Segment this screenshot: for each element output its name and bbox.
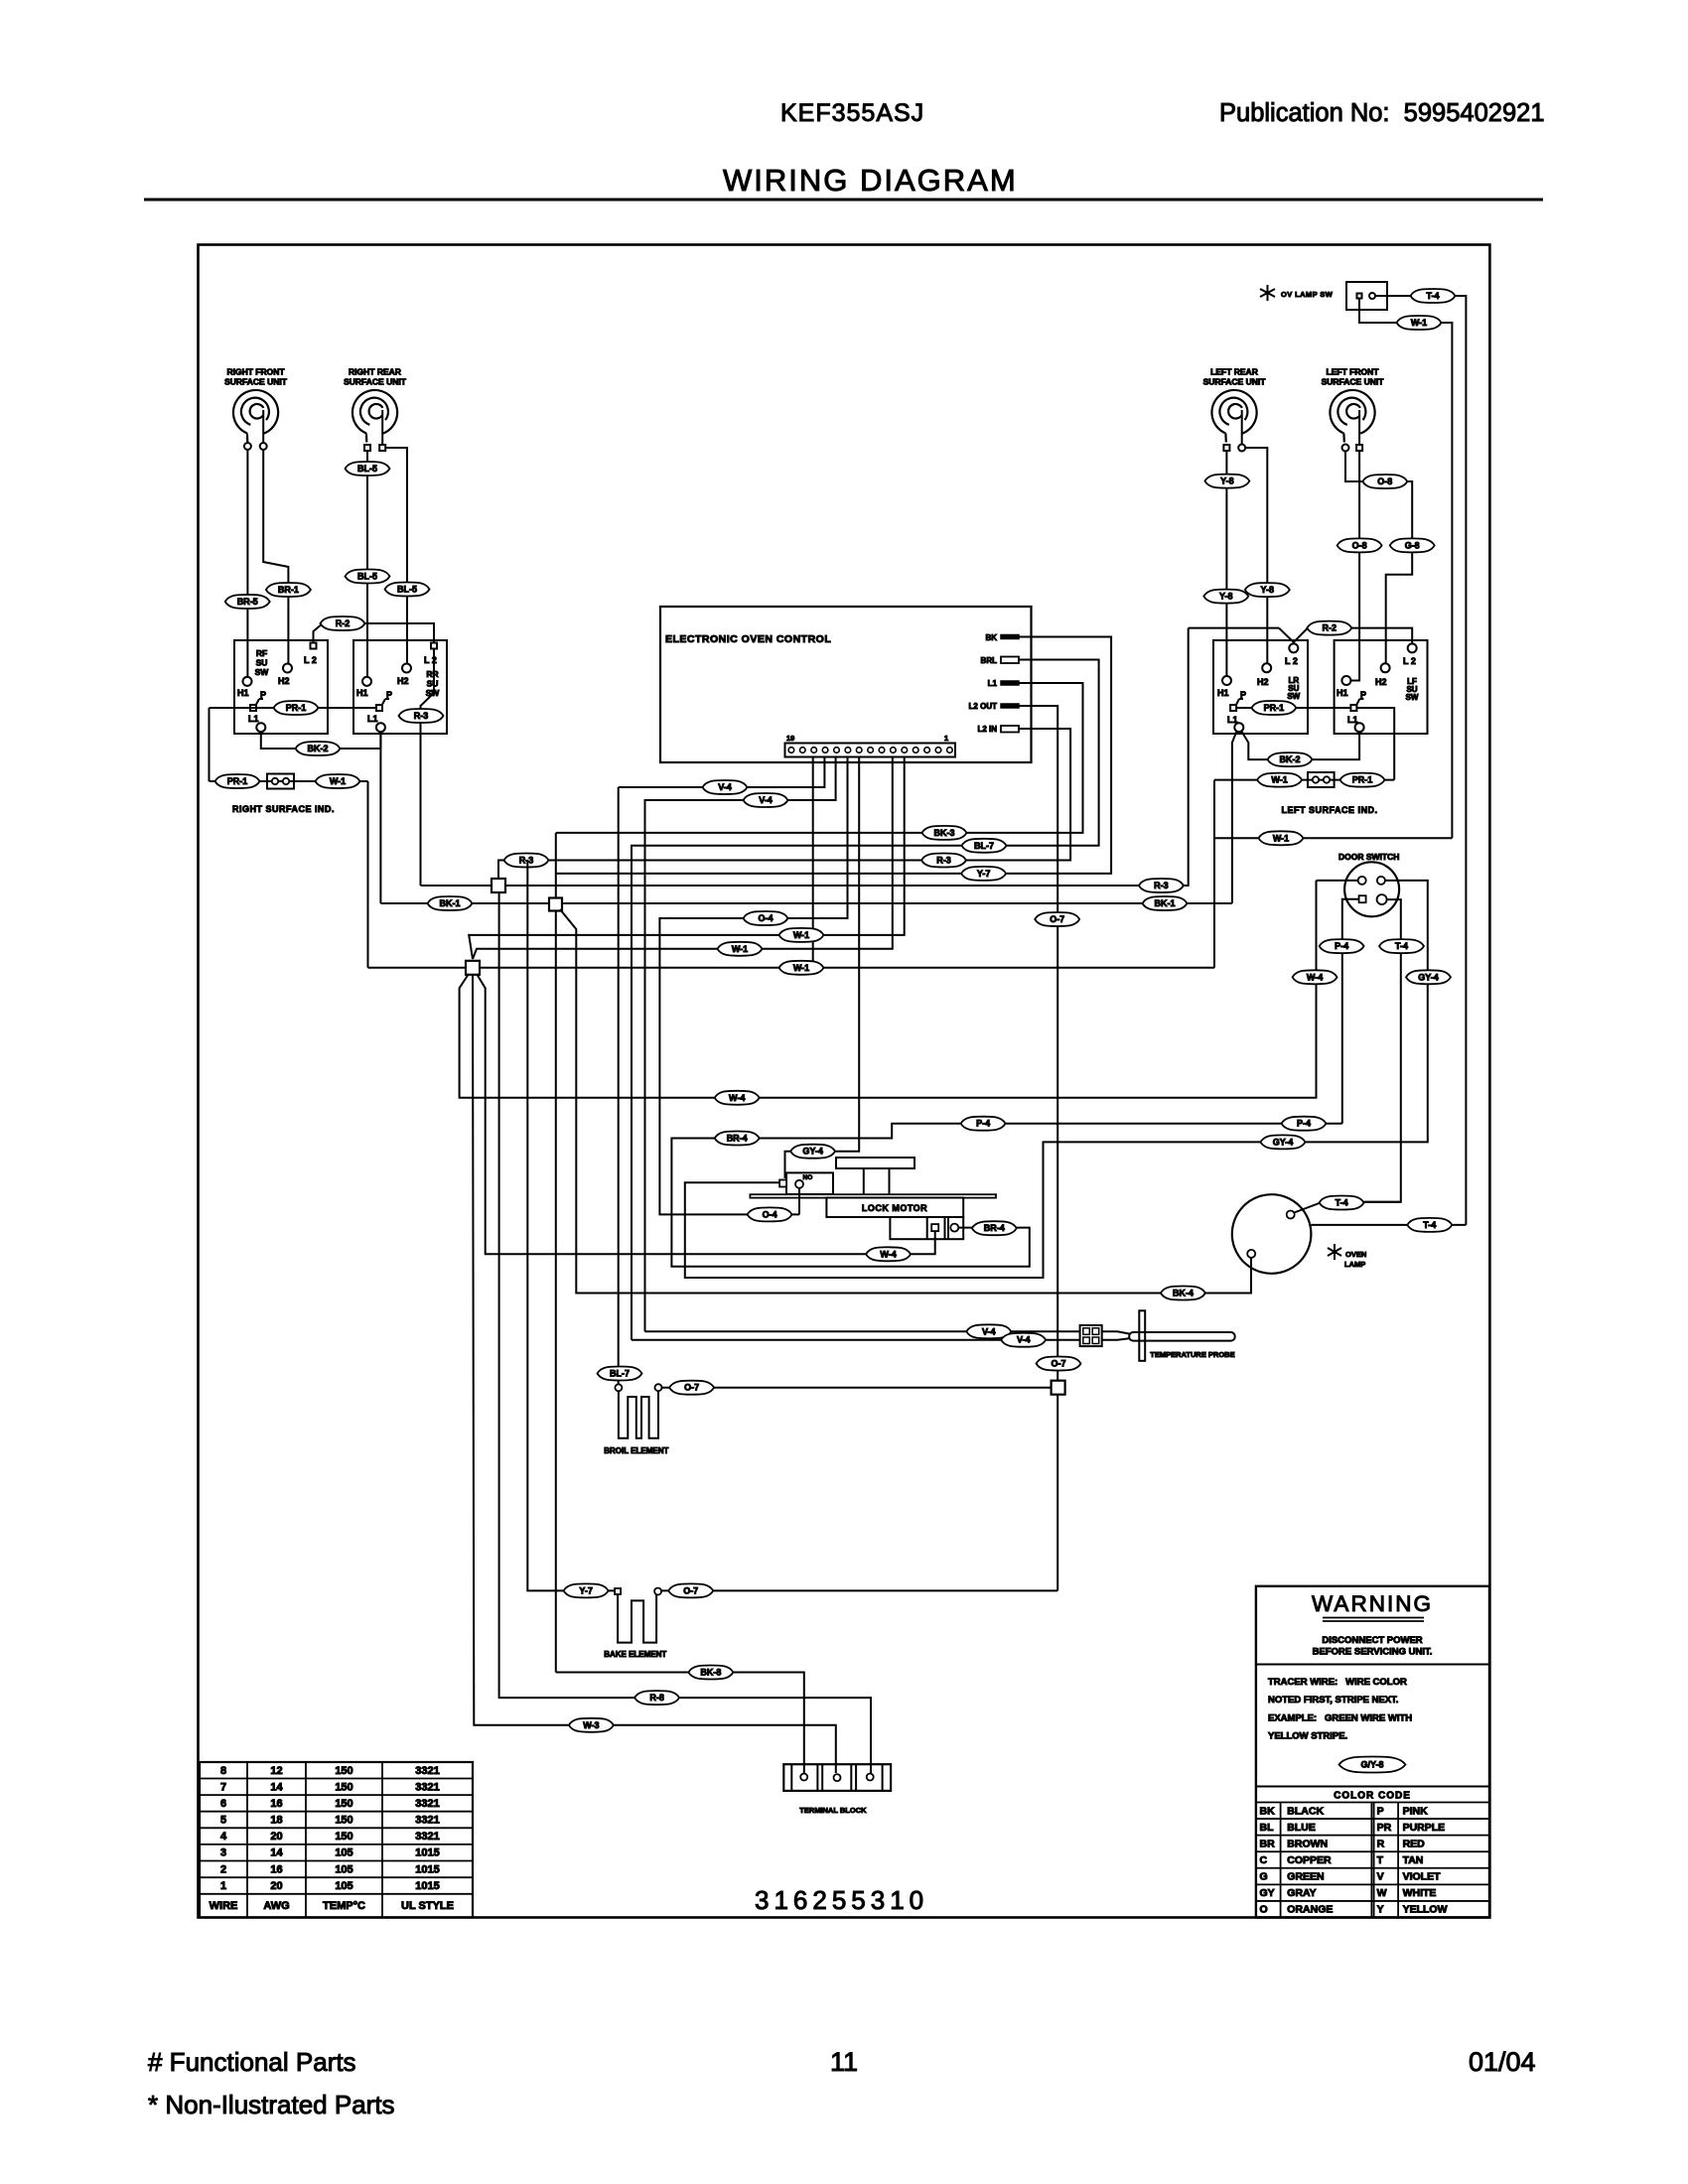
wire BL-7 broil drop — [618, 787, 620, 1384]
svg-text:L1: L1 — [367, 714, 378, 724]
wire J3 left fan W-4 net — [460, 881, 1317, 1098]
wire label W-1 b — [718, 942, 763, 956]
wire label Y-8 c — [1245, 583, 1290, 597]
svg-text:6: 6 — [220, 1798, 226, 1810]
lr coil terminal 2 — [1238, 445, 1245, 452]
svg-text:WARNING: WARNING — [1312, 1591, 1433, 1616]
svg-text:SW: SW — [255, 667, 270, 677]
rf terminal P — [250, 705, 256, 711]
svg-text:W-1: W-1 — [1271, 775, 1287, 785]
svg-text:SURFACE UNIT: SURFACE UNIT — [344, 377, 407, 387]
indicator light right — [267, 774, 294, 789]
wire BRL net (BL-7 run) — [632, 660, 1099, 1340]
rr coil stem right — [381, 410, 383, 445]
svg-text:R-2: R-2 — [1323, 623, 1337, 633]
svg-text:PURPLE: PURPLE — [1403, 1822, 1446, 1834]
wire P row PR-1 — [210, 707, 377, 709]
wire label GY-4 door — [1406, 970, 1451, 984]
wire label T-4 lamp a — [1320, 1196, 1364, 1210]
svg-text:BROIL ELEMENT: BROIL ELEMENT — [604, 1446, 668, 1455]
svg-text:L2 IN: L2 IN — [977, 725, 997, 734]
wire label R-3 mid — [921, 854, 966, 868]
wire branch bake L2 net — [527, 861, 615, 1591]
svg-text:P: P — [1240, 690, 1246, 700]
asterisk ov lamp sw — [1260, 285, 1275, 301]
svg-text:G/Y-8: G/Y-8 — [1360, 1760, 1383, 1770]
svg-text:NO: NO — [803, 1174, 813, 1181]
svg-text:SU: SU — [256, 658, 268, 668]
svg-text:R-8: R-8 — [649, 1693, 664, 1703]
wire J1 drop R-8 net — [499, 892, 871, 1773]
eoc tick L1 — [1001, 681, 1019, 685]
svg-text:H2: H2 — [1375, 677, 1387, 687]
svg-text:EXAMPLE: GREEN WIRE WITH: EXAMPLE: GREEN WIRE WITH — [1268, 1713, 1412, 1724]
svg-text:BL-7: BL-7 — [974, 841, 994, 851]
wire left indicator row — [1214, 779, 1394, 781]
svg-text:150: 150 — [335, 1815, 352, 1827]
svg-text:V-4: V-4 — [982, 1326, 996, 1336]
svg-text:O-7: O-7 — [1050, 914, 1064, 924]
lf terminal P — [1350, 705, 1356, 711]
wire label O-8 b — [1337, 538, 1382, 552]
svg-text:RR: RR — [426, 669, 438, 679]
wire NO contact drop — [798, 1188, 800, 1215]
svg-text:P-4: P-4 — [1297, 1119, 1311, 1129]
wire label BL-7 — [962, 839, 1007, 853]
svg-text:150: 150 — [335, 1831, 352, 1843]
wire L2 IN net (R-3 run) — [498, 729, 1070, 879]
svg-text:H1: H1 — [237, 688, 249, 698]
rr coil terminal 2 — [379, 445, 385, 451]
svg-text:O: O — [1260, 1904, 1268, 1916]
svg-text:L 2: L 2 — [1403, 656, 1416, 666]
wire label G-8 — [1390, 538, 1435, 552]
wire label R-3 rr — [399, 709, 444, 723]
eoc wire stub L1 — [1019, 682, 1032, 684]
wire label R-8 — [634, 1691, 679, 1705]
svg-text:BR: BR — [1260, 1838, 1276, 1849]
wire J1 row right — [505, 628, 1189, 886]
switch box RF SU SW — [234, 640, 328, 734]
svg-text:1015: 1015 — [415, 1847, 439, 1859]
svg-text:BEFORE SERVICING UNIT.: BEFORE SERVICING UNIT. — [1313, 1647, 1433, 1658]
svg-text:P: P — [386, 690, 392, 700]
wire rf right lead to H2 — [263, 450, 288, 663]
wire label W-4 lock — [866, 1247, 911, 1261]
wire label R-3 right — [1139, 879, 1184, 892]
svg-text:R-3: R-3 — [519, 856, 534, 866]
wire label W-4 door — [1293, 970, 1337, 984]
svg-text:150: 150 — [335, 1798, 352, 1810]
wire label W-1 ind — [316, 774, 360, 788]
wire label W-3 — [569, 1718, 614, 1732]
svg-text:SW: SW — [1287, 692, 1300, 701]
svg-text:RIGHT REAR: RIGHT REAR — [349, 367, 401, 377]
svg-text:T-4: T-4 — [1426, 291, 1439, 301]
svg-text:PR-1: PR-1 — [286, 703, 307, 713]
svg-text:BL-5: BL-5 — [357, 464, 377, 474]
svg-text:H1: H1 — [1217, 688, 1229, 698]
svg-text:Y-8: Y-8 — [1219, 592, 1233, 602]
lock motor terminal 1 — [931, 1224, 938, 1231]
svg-text:W-1: W-1 — [793, 930, 809, 940]
svg-text:L1: L1 — [248, 714, 259, 724]
svg-text:Publication No: 5995402921: Publication No: 5995402921 — [1219, 99, 1545, 127]
rr terminal L1 — [376, 723, 385, 732]
wire label BR-1 — [266, 583, 311, 597]
svg-text:BROWN: BROWN — [1287, 1838, 1328, 1849]
svg-text:Y-8: Y-8 — [1261, 585, 1275, 595]
wire lr right lead — [1245, 448, 1268, 663]
lf coil terminal 1 — [1342, 445, 1349, 452]
svg-text:R-3: R-3 — [1154, 881, 1169, 890]
svg-text:W-1: W-1 — [1411, 318, 1427, 328]
wire R-2 left net — [1189, 627, 1279, 629]
wire label W-4 mid — [715, 1091, 760, 1105]
probe taper — [1102, 1331, 1130, 1333]
svg-text:20: 20 — [270, 1831, 282, 1843]
wire V-4 probe upper — [645, 1330, 1080, 1332]
svg-text:BRL: BRL — [981, 656, 998, 665]
wire label R-2 — [321, 616, 365, 630]
svg-text:BK-2: BK-2 — [1279, 754, 1300, 764]
lr coil terminal 1 — [1223, 445, 1229, 451]
eoc wire stub L2 OUT — [1019, 705, 1032, 707]
wire label BR-4 b — [715, 1132, 760, 1146]
svg-text:TEMPERATURE PROBE: TEMPERATURE PROBE — [1150, 1350, 1234, 1359]
svg-text:O-4: O-4 — [763, 1209, 777, 1219]
wire label G/Y-8 example — [1339, 1757, 1406, 1773]
svg-text:SURFACE UNIT: SURFACE UNIT — [1322, 377, 1385, 387]
rf terminal L1 — [256, 723, 265, 732]
svg-text:P: P — [1377, 1805, 1384, 1817]
lock motor terminal 2 — [950, 1224, 958, 1232]
indicator light left — [1308, 772, 1335, 787]
svg-text:W-4: W-4 — [880, 1249, 896, 1259]
wire label R-2 left — [1307, 621, 1351, 635]
svg-text:16: 16 — [270, 1798, 282, 1810]
lr terminal L1 — [1234, 723, 1243, 732]
wire RR.L1 drop — [379, 732, 381, 903]
svg-text:SU: SU — [427, 679, 439, 689]
bake terminal left — [615, 1588, 621, 1594]
svg-text:YELLOW: YELLOW — [1403, 1904, 1448, 1916]
lf terminal H2 — [1381, 663, 1390, 672]
terminal block pin 3 — [867, 1774, 874, 1781]
terminal block pin 2 — [834, 1774, 841, 1781]
svg-text:BL-7: BL-7 — [610, 1369, 630, 1379]
svg-text:3321: 3321 — [415, 1781, 439, 1793]
wire W-1 bus row — [368, 967, 1215, 969]
svg-text:BL-5: BL-5 — [357, 572, 377, 582]
switch box RR SU SW — [353, 640, 447, 734]
wire BK net (Y-7 run) — [556, 637, 1111, 874]
wire pin5 O-4 net — [659, 757, 847, 1215]
svg-text:BLACK: BLACK — [1287, 1805, 1324, 1817]
svg-text:L 2: L 2 — [1285, 656, 1298, 666]
svg-text:AWG: AWG — [263, 1900, 289, 1912]
svg-text:20: 20 — [270, 1880, 282, 1892]
warning divider 1 — [1256, 1664, 1489, 1666]
wire rr left lead to H1 — [366, 451, 368, 677]
probe body — [1129, 1332, 1235, 1341]
svg-text:O-7: O-7 — [684, 1383, 699, 1393]
svg-text:1: 1 — [220, 1880, 226, 1892]
svg-text:BK: BK — [985, 633, 997, 642]
svg-text:4: 4 — [220, 1831, 227, 1843]
wire RR.L2 drop R-3 — [421, 649, 435, 886]
wire label BR-4 a — [972, 1221, 1017, 1235]
svg-text:1015: 1015 — [415, 1863, 439, 1875]
eoc wire stub BRL — [1019, 659, 1032, 661]
wire pin6 GY-4 net — [785, 757, 860, 1179]
rr coil terminal 1 — [364, 445, 370, 451]
rf terminal H2 — [283, 664, 292, 673]
wire BR-4 / P-4 net — [671, 1124, 1341, 1267]
svg-text:T: T — [1377, 1854, 1384, 1866]
wire door BL P-4 drop — [1342, 899, 1359, 1124]
svg-text:14: 14 — [270, 1781, 283, 1793]
wire W-1 drop to bus — [367, 781, 369, 968]
svg-text:Y-7: Y-7 — [579, 1585, 593, 1595]
svg-text:11: 11 — [830, 2047, 858, 2077]
eoc tick L2 OUT — [1001, 704, 1019, 708]
lr terminal P — [1230, 705, 1236, 711]
wire label T-4 door — [1379, 939, 1424, 953]
wire label W-1 a — [779, 928, 824, 942]
svg-text:BK: BK — [1260, 1805, 1276, 1817]
wire label T-4 lamp b — [1407, 1218, 1452, 1232]
wire label Y-8 b — [1203, 590, 1248, 604]
warning divider 2 — [1256, 1786, 1489, 1788]
svg-text:L2 OUT: L2 OUT — [969, 702, 998, 711]
terminal block body — [783, 1764, 891, 1791]
probe blade — [1139, 1310, 1145, 1361]
bake terminal right — [654, 1588, 661, 1595]
rr terminal L2 — [431, 643, 437, 649]
wire label V-4 b — [744, 793, 788, 807]
rr terminal H2 — [402, 664, 411, 673]
svg-text:BK-1: BK-1 — [439, 898, 460, 908]
svg-text:105: 105 — [335, 1880, 352, 1892]
wire label PR-1 ind — [215, 774, 260, 788]
wire pin9 W-1 net — [473, 757, 893, 960]
wire BK vertical — [555, 833, 557, 1673]
eoc wire stub BK — [1019, 636, 1032, 638]
svg-text:W-4: W-4 — [1307, 972, 1323, 982]
wire label GY-4 lock — [790, 1145, 835, 1159]
wire label Y-8 a — [1204, 475, 1249, 488]
ov lamp sw terminal 1 — [1357, 294, 1362, 299]
rf coil terminal 1 — [244, 443, 251, 450]
wire R-2 RF.L2 to RR.L2 — [314, 623, 435, 642]
wire BK-1 row right — [562, 902, 1232, 904]
wire label Y-7 — [961, 867, 1006, 881]
wire lf square lead — [1350, 451, 1359, 681]
svg-text:RIGHT FRONT: RIGHT FRONT — [226, 367, 285, 377]
wire lr left lead — [1225, 451, 1227, 676]
svg-text:ELECTRONIC OVEN CONTROL: ELECTRONIC OVEN CONTROL — [665, 633, 831, 645]
svg-text:LEFT REAR: LEFT REAR — [1210, 367, 1258, 377]
svg-text:PR: PR — [1377, 1822, 1392, 1834]
wire pin10 W-1 net — [469, 757, 905, 960]
junction square temp probe — [1052, 1381, 1065, 1395]
broil terminal right — [655, 1384, 662, 1391]
rf coil terminal 2 — [260, 443, 267, 450]
lr terminal H2 — [1262, 663, 1271, 672]
svg-text:O-7: O-7 — [1051, 1359, 1065, 1369]
svg-text:3321: 3321 — [415, 1831, 439, 1843]
svg-text:COPPER: COPPER — [1287, 1854, 1332, 1866]
svg-text:C: C — [1260, 1854, 1268, 1866]
svg-text:COLOR CODE: COLOR CODE — [1334, 1791, 1411, 1802]
wire pin4 V-4 net — [645, 757, 836, 1332]
wire P drop left — [209, 708, 211, 781]
svg-text:7: 7 — [220, 1781, 226, 1793]
wire pin2 drop to W-1 bus — [812, 757, 814, 968]
wire PR-1 row left — [1237, 707, 1350, 709]
diagram border frame — [199, 245, 1490, 1918]
rf terminal H1 — [243, 677, 252, 686]
svg-text:PINK: PINK — [1403, 1805, 1429, 1817]
lock switch contact NO — [795, 1180, 803, 1188]
svg-text:W-1: W-1 — [1273, 833, 1289, 843]
svg-text:O-7: O-7 — [683, 1585, 698, 1595]
wire LF.P to indicator — [1356, 708, 1394, 780]
wire label O-7 upper — [1035, 912, 1079, 926]
svg-text:BK-8: BK-8 — [700, 1668, 721, 1678]
svg-text:14: 14 — [270, 1847, 283, 1859]
door switch body — [1344, 862, 1399, 916]
wire label Y-7 bake — [564, 1583, 609, 1597]
eoc tick BK — [1001, 635, 1019, 639]
wire label BK-8 — [688, 1666, 733, 1680]
svg-text:V: V — [1377, 1871, 1384, 1883]
wire label BK-3 — [922, 826, 967, 840]
wire label BL-5 lower — [346, 570, 390, 584]
wire label W-1 cross — [1259, 831, 1304, 845]
wire label V-4 probe upper — [966, 1324, 1011, 1338]
wire label PR-1 left ind — [1340, 773, 1385, 787]
svg-text:8: 8 — [220, 1765, 226, 1777]
rf coil left lead — [246, 442, 248, 445]
svg-text:BR-5: BR-5 — [237, 597, 258, 607]
svg-text:Y-7: Y-7 — [977, 869, 991, 879]
svg-text:BL-5: BL-5 — [397, 585, 417, 595]
wire label T-4 — [1411, 289, 1456, 303]
oven lamp pin top — [1287, 1211, 1295, 1219]
wire lf circle lead O-8/G-8 — [1345, 452, 1412, 663]
svg-text:BAKE ELEMENT: BAKE ELEMENT — [604, 1650, 666, 1659]
rf coil stem right — [262, 410, 264, 443]
svg-text:RIGHT SURFACE IND.: RIGHT SURFACE IND. — [232, 804, 335, 814]
terminal block pin 1 — [800, 1774, 807, 1781]
svg-text:Y-8: Y-8 — [1220, 477, 1234, 486]
svg-text:BR-1: BR-1 — [278, 585, 299, 595]
door switch pin BR — [1377, 894, 1387, 904]
asterisk oven lamp — [1328, 1244, 1341, 1260]
svg-text:R-2: R-2 — [336, 618, 351, 628]
svg-text:P: P — [260, 690, 266, 700]
svg-text:1: 1 — [944, 734, 948, 743]
wire O-7 bake — [661, 1589, 1057, 1591]
svg-text:DISCONNECT POWER: DISCONNECT POWER — [1322, 1635, 1422, 1646]
wire label O-7 probe — [1037, 1357, 1081, 1371]
heater coil LEFT FRONT SURFACE UNIT — [1330, 390, 1374, 443]
wire label O-4 lock — [748, 1207, 792, 1221]
svg-text:GY-4: GY-4 — [1418, 972, 1439, 982]
svg-text:BR-4: BR-4 — [984, 1223, 1005, 1233]
svg-text:18: 18 — [270, 1815, 282, 1827]
svg-text:W-1: W-1 — [732, 944, 748, 954]
lock switch housing — [786, 1172, 833, 1194]
lock motor stem — [863, 1168, 865, 1194]
wire BK-8 to terminal block — [556, 1673, 804, 1774]
svg-text:Y: Y — [1377, 1904, 1384, 1916]
svg-text:H2: H2 — [397, 676, 409, 686]
wire label BK-1 left — [428, 896, 473, 910]
svg-text:V-4: V-4 — [1017, 1335, 1031, 1345]
svg-text:2: 2 — [220, 1863, 226, 1875]
junction J1 — [492, 879, 505, 892]
svg-text:TEMP°C: TEMP°C — [323, 1900, 365, 1912]
svg-text:R-3: R-3 — [414, 711, 429, 721]
svg-text:WHITE: WHITE — [1403, 1887, 1437, 1899]
junction J3 — [466, 961, 480, 975]
svg-text:1015: 1015 — [415, 1880, 439, 1892]
wire V-4 probe lower — [632, 1339, 1080, 1341]
wire label W-1 bus — [779, 961, 824, 975]
wire label O-8 a — [1362, 475, 1407, 488]
svg-text:O-8: O-8 — [1377, 477, 1392, 486]
wire label PR-1 — [274, 701, 319, 715]
svg-text:YELLOW STRIPE.: YELLOW STRIPE. — [1268, 1731, 1347, 1742]
heater coil LEFT REAR SURFACE UNIT — [1211, 390, 1256, 443]
svg-text:316255310: 316255310 — [755, 1885, 928, 1915]
svg-text:GY-4: GY-4 — [1273, 1137, 1294, 1147]
wire J3 mid drop W-3 net — [473, 975, 836, 1773]
svg-text:# Functional Parts: # Functional Parts — [148, 2047, 356, 2077]
wire pin3 V-4 net — [619, 757, 825, 788]
svg-text:12: 12 — [270, 1765, 282, 1777]
lf terminal H1 — [1341, 676, 1350, 685]
svg-text:G: G — [1260, 1871, 1268, 1883]
svg-text:T-4: T-4 — [1423, 1220, 1436, 1230]
svg-text:* Non-Ilustrated Parts: * Non-Ilustrated Parts — [148, 2090, 395, 2119]
svg-text:H1: H1 — [356, 688, 368, 698]
bake element — [618, 1594, 656, 1643]
wire label BK-1 right — [1143, 896, 1188, 910]
svg-text:GY: GY — [1260, 1887, 1275, 1899]
svg-text:LAMP: LAMP — [1344, 1260, 1365, 1269]
svg-text:GREEN: GREEN — [1287, 1871, 1324, 1883]
door switch pin BL — [1359, 895, 1366, 902]
svg-text:W-1: W-1 — [330, 776, 346, 786]
switch OV LAMP SW box — [1346, 282, 1387, 310]
wire door BR T-4 net — [1360, 899, 1401, 1202]
title underline — [144, 199, 1543, 202]
wire label V-4 a — [703, 780, 748, 794]
lr terminal H1 — [1222, 676, 1231, 685]
eoc tick L2 IN — [1001, 726, 1019, 733]
svg-text:01/04: 01/04 — [1469, 2047, 1536, 2077]
svg-text:V-4: V-4 — [718, 782, 732, 792]
svg-text:L 2: L 2 — [304, 655, 317, 665]
svg-text:L1: L1 — [1227, 715, 1238, 725]
wire J3 right fan W-4 lock net — [477, 974, 935, 1254]
wire label PR-1 left — [1251, 701, 1296, 715]
eoc wire stub L2 IN — [1019, 728, 1032, 730]
